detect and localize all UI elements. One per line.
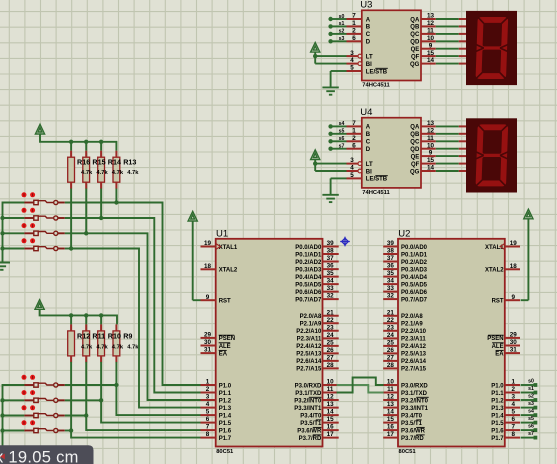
- switch SW4: [3, 238, 71, 250]
- wire U2 P1.7 to node s7: [521, 431, 535, 438]
- wire net s7 to U4 pin 6: [332, 144, 347, 150]
- svg-text:10: 10: [427, 35, 435, 42]
- svg-text:P0.2/AD2: P0.2/AD2: [295, 260, 322, 266]
- svg-text:23: 23: [327, 324, 335, 331]
- svg-text:6: 6: [352, 142, 356, 149]
- power terminal for U3 LT/BI: [311, 43, 320, 53]
- svg-text:P2.5/A13: P2.5/A13: [401, 352, 427, 358]
- wire SW2/R14 node to U1 P1.1: [101, 218, 200, 393]
- junction pull-up R12: [69, 428, 73, 432]
- svg-text:38: 38: [387, 248, 395, 255]
- junction ground bus bottom: [0, 413, 4, 417]
- svg-text:QF: QF: [411, 54, 420, 60]
- svg-text:P1.2: P1.2: [491, 398, 504, 404]
- svg-text:24: 24: [327, 332, 335, 339]
- svg-text:P0.6/AD6: P0.6/AD6: [401, 290, 428, 296]
- wire into resistor R12: [70, 315, 72, 324]
- svg-text:9: 9: [511, 294, 515, 301]
- svg-text:P2.7/A15: P2.7/A15: [401, 367, 427, 373]
- svg-text:4.7k: 4.7k: [81, 170, 93, 176]
- switch SW6: [3, 390, 101, 402]
- svg-text:QC: QC: [410, 32, 420, 38]
- svg-text:31: 31: [510, 347, 518, 354]
- svg-text:74HC4511: 74HC4511: [362, 83, 390, 89]
- svg-text:QG: QG: [410, 62, 420, 68]
- junction ground bus: [0, 246, 4, 250]
- junction ground bus: [0, 216, 4, 220]
- svg-text:P2.6/A14: P2.6/A14: [401, 359, 427, 365]
- svg-text:5: 5: [206, 409, 210, 416]
- svg-text:P2.5/A13: P2.5/A13: [296, 352, 322, 358]
- svg-text:PSEN: PSEN: [219, 336, 235, 342]
- power terminal for top resistor bank: [35, 124, 44, 134]
- svg-text:D: D: [366, 147, 371, 153]
- wire net s4 to U4 pin 7: [332, 121, 347, 127]
- svg-text:D: D: [366, 40, 371, 46]
- svg-text:U4: U4: [360, 107, 372, 118]
- svg-text:16: 16: [327, 424, 335, 431]
- svg-text:12: 12: [387, 394, 395, 401]
- node s3 terminal: [534, 406, 538, 410]
- svg-text:11: 11: [427, 135, 434, 142]
- svg-text:P3.5/T1: P3.5/T1: [300, 421, 322, 427]
- 7-segment display DS2: [466, 118, 517, 192]
- wire R12 / SW8 to U1 P1.7: [71, 362, 200, 438]
- svg-text:XTAL2: XTAL2: [485, 268, 504, 274]
- svg-text:P3.2/INT0: P3.2/INT0: [294, 398, 322, 404]
- wire U3 QG to display: [436, 63, 467, 65]
- node s4: [328, 124, 332, 128]
- svg-text:ALE: ALE: [492, 344, 504, 350]
- svg-text:14: 14: [427, 165, 435, 172]
- svg-text:24: 24: [387, 332, 395, 339]
- svg-text:39: 39: [327, 240, 335, 247]
- svg-text:s0: s0: [339, 14, 345, 20]
- junction ground bus bottom: [0, 398, 4, 402]
- ground (top switch group): [0, 263, 10, 270]
- wire U2 P1.0 to node s0: [521, 378, 535, 385]
- svg-text:4.7k: 4.7k: [96, 344, 108, 350]
- junction pull-up R15: [84, 231, 88, 235]
- svg-text:QA: QA: [410, 17, 420, 23]
- node s5: [328, 132, 332, 136]
- svg-text:s5: s5: [339, 129, 345, 135]
- svg-text:R13: R13: [123, 158, 136, 167]
- svg-text:30: 30: [510, 339, 518, 346]
- svg-text:18: 18: [510, 263, 518, 270]
- svg-text:4: 4: [350, 57, 354, 64]
- svg-text:RST: RST: [492, 299, 504, 305]
- svg-text:27: 27: [327, 355, 335, 362]
- svg-text:P1.7: P1.7: [491, 436, 504, 442]
- svg-text:s3: s3: [528, 401, 534, 407]
- wire ground bus (top switch group): [3, 203, 25, 263]
- svg-text:21: 21: [327, 309, 335, 316]
- svg-text:10: 10: [427, 142, 435, 149]
- svg-text:BI: BI: [366, 169, 372, 175]
- svg-text:15: 15: [427, 50, 435, 57]
- node s3: [328, 39, 332, 43]
- junction resistor top R14: [99, 140, 103, 144]
- wire into resistor R14: [100, 142, 102, 151]
- node s6 terminal: [534, 428, 538, 432]
- svg-text:P2.2/A10: P2.2/A10: [401, 329, 427, 335]
- wire U4 LE/STB to ground: [331, 178, 347, 194]
- svg-text:P3.0/RXD: P3.0/RXD: [295, 383, 322, 389]
- svg-text:s7: s7: [528, 431, 534, 437]
- svg-text:4.7k: 4.7k: [96, 170, 108, 176]
- svg-text:16: 16: [387, 424, 395, 431]
- svg-text:P3.3/INT1: P3.3/INT1: [401, 406, 429, 412]
- 74HC4511 decoder U3: [347, 0, 436, 89]
- wire U2 P1.1 to node s1: [521, 386, 535, 393]
- status tooltip: [0, 445, 94, 464]
- svg-text:P2.7/A15: P2.7/A15: [296, 367, 322, 373]
- svg-text:80C51: 80C51: [216, 449, 234, 455]
- svg-text:B: B: [366, 25, 371, 31]
- switch SW8: [3, 420, 71, 432]
- junction ground bus bottom: [0, 428, 4, 432]
- svg-text:5: 5: [350, 172, 354, 179]
- svg-text:3: 3: [350, 157, 354, 164]
- wire U1 RST to power: [193, 221, 201, 300]
- wire U1 P3.0/RXD to U2 pin 11: [337, 385, 384, 393]
- svg-text:21: 21: [387, 309, 395, 316]
- svg-text:14: 14: [387, 409, 395, 416]
- resistor R11 4.7k: [83, 324, 90, 362]
- junction pull-up R11: [84, 413, 88, 417]
- svg-text:30: 30: [204, 339, 212, 346]
- switch SW1: [3, 192, 116, 204]
- svg-text:QF: QF: [411, 162, 420, 168]
- svg-text:C: C: [366, 140, 371, 146]
- svg-text:QG: QG: [410, 169, 420, 175]
- svg-text:s6: s6: [528, 424, 534, 430]
- svg-text:P3.1/TXD: P3.1/TXD: [401, 391, 428, 397]
- svg-text:s4: s4: [339, 121, 345, 127]
- svg-text:s1: s1: [339, 21, 345, 27]
- svg-text:P0.3/AD3: P0.3/AD3: [401, 267, 428, 273]
- wire power to U4 BI: [315, 164, 346, 171]
- svg-text:U2: U2: [398, 229, 410, 240]
- svg-text:1: 1: [511, 379, 515, 386]
- svg-text:26: 26: [327, 347, 335, 354]
- svg-text:A: A: [366, 17, 371, 23]
- svg-text:P1.1: P1.1: [219, 391, 232, 397]
- wire U4 QD to display: [436, 148, 467, 150]
- node s7: [328, 147, 332, 151]
- svg-text:5: 5: [511, 409, 515, 416]
- svg-text:22: 22: [387, 317, 395, 324]
- svg-text:32: 32: [387, 293, 395, 300]
- wire R16 bottom to switch row 4: [70, 189, 72, 249]
- svg-text:14: 14: [427, 57, 435, 64]
- svg-text:R12: R12: [77, 331, 90, 340]
- svg-text:P3.6/WR: P3.6/WR: [297, 428, 322, 434]
- svg-text:7: 7: [511, 424, 515, 431]
- svg-text:P0.5/AD5: P0.5/AD5: [401, 282, 428, 288]
- svg-text:XTAL2: XTAL2: [219, 268, 238, 274]
- svg-text:PSEN: PSEN: [487, 336, 503, 342]
- svg-text:s2: s2: [528, 393, 534, 399]
- svg-text:P1.3: P1.3: [491, 406, 504, 412]
- svg-text:4.7k: 4.7k: [112, 170, 124, 176]
- svg-text:R10: R10: [108, 331, 121, 340]
- power terminal for U1 RST: [188, 211, 197, 221]
- node s6: [328, 139, 332, 143]
- svg-text:34: 34: [327, 278, 335, 285]
- resistor R9 4.7k: [113, 324, 120, 362]
- switch SW5: [3, 375, 116, 387]
- svg-text:XTAL1: XTAL1: [219, 245, 238, 251]
- wire U2 P1.3 to node s3: [521, 401, 535, 408]
- svg-text:P0.1/AD1: P0.1/AD1: [401, 252, 428, 258]
- 80C51 microcontroller U2: [383, 229, 520, 456]
- svg-text:11: 11: [427, 28, 434, 35]
- svg-text:P1.4: P1.4: [219, 413, 232, 419]
- svg-text:LE/STB: LE/STB: [366, 69, 388, 75]
- svg-text:8: 8: [511, 431, 515, 438]
- svg-text:s0: s0: [528, 378, 534, 384]
- wire SW1/R13 node to U1 P1.0: [116, 203, 200, 386]
- svg-text:4: 4: [206, 401, 210, 408]
- svg-text:6: 6: [352, 35, 356, 42]
- svg-text:P1.1: P1.1: [491, 391, 504, 397]
- svg-text:28: 28: [387, 362, 395, 369]
- svg-text:P3.4/T0: P3.4/T0: [401, 413, 423, 419]
- svg-text:4.7k: 4.7k: [127, 344, 139, 350]
- svg-text:28: 28: [327, 362, 335, 369]
- svg-text:2: 2: [511, 386, 515, 393]
- svg-text:13: 13: [427, 120, 435, 127]
- 80C51 microcontroller U1: [201, 229, 339, 456]
- resistor R14 4.7k: [98, 151, 105, 189]
- svg-text:P1.0: P1.0: [491, 383, 504, 389]
- svg-text:P1.3: P1.3: [219, 406, 232, 412]
- svg-text:10: 10: [327, 379, 335, 386]
- svg-text:P3.0/RXD: P3.0/RXD: [401, 383, 428, 389]
- wire R11 / SW7 to U1 P1.6: [86, 362, 200, 430]
- svg-text:P3.7/RD: P3.7/RD: [401, 436, 424, 442]
- switch SW7: [3, 405, 86, 417]
- svg-text:1: 1: [206, 379, 210, 386]
- svg-text:LE/STB: LE/STB: [366, 177, 388, 183]
- svg-text:15: 15: [427, 157, 435, 164]
- svg-text:13: 13: [327, 401, 335, 408]
- svg-text:P0.4/AD4: P0.4/AD4: [401, 275, 428, 281]
- svg-text:35: 35: [327, 270, 335, 277]
- svg-text:36: 36: [387, 263, 395, 270]
- wire power rail to resistor tops (top bank): [40, 134, 116, 151]
- svg-text:QD: QD: [410, 40, 420, 46]
- wire U4 QC to display: [436, 140, 467, 142]
- svg-text:P0.7/AD7: P0.7/AD7: [295, 297, 322, 303]
- svg-text:19: 19: [510, 240, 518, 247]
- svg-text:11: 11: [387, 386, 394, 393]
- wire R14 bottom to switch row 2: [100, 189, 102, 219]
- svg-text:12: 12: [427, 20, 435, 27]
- svg-text:35: 35: [387, 270, 395, 277]
- svg-text:P3.1/TXD: P3.1/TXD: [295, 391, 322, 397]
- svg-text:25: 25: [327, 340, 335, 347]
- svg-text:R11: R11: [92, 331, 105, 340]
- svg-text:A: A: [366, 125, 371, 131]
- junction pull-up R9: [114, 383, 118, 387]
- svg-text:1: 1: [352, 20, 356, 27]
- svg-text:s2: s2: [339, 29, 345, 35]
- svg-text:33: 33: [387, 285, 395, 292]
- wire U3 QB to display: [436, 25, 467, 27]
- wire power to U4 LT: [315, 160, 346, 164]
- svg-text:P3.5/T1: P3.5/T1: [401, 421, 423, 427]
- wire U3 QE to display: [436, 48, 467, 50]
- svg-text:P1.5: P1.5: [491, 421, 504, 427]
- svg-text:s3: s3: [339, 36, 345, 42]
- resistor R13 4.7k: [113, 151, 120, 189]
- wire into resistor R10: [100, 315, 102, 324]
- ground for U4: [322, 195, 338, 202]
- wire U3 QD to display: [436, 40, 467, 42]
- svg-text:P1.6: P1.6: [491, 428, 504, 434]
- svg-text:27: 27: [387, 355, 395, 362]
- node s4 terminal: [534, 413, 538, 417]
- cursor marker: [0, 454, 5, 460]
- svg-text:32: 32: [327, 293, 335, 300]
- svg-text:B: B: [366, 132, 371, 138]
- svg-text:19: 19: [204, 240, 212, 247]
- svg-text:P0.7/AD7: P0.7/AD7: [401, 297, 428, 303]
- svg-text:P0.5/AD5: P0.5/AD5: [295, 282, 322, 288]
- svg-text:5: 5: [350, 65, 354, 72]
- svg-text:74HC4511: 74HC4511: [362, 190, 390, 196]
- switch SW3: [3, 223, 86, 235]
- svg-text:4.7k: 4.7k: [127, 170, 139, 176]
- wire U1 P3.1/TXD to U2 pin 10: [337, 378, 384, 393]
- svg-text:25: 25: [387, 340, 395, 347]
- power terminal for U4 LT/BI: [311, 150, 320, 160]
- wire U3 QF to display: [436, 55, 467, 57]
- wire U4 QG to display: [436, 170, 467, 172]
- svg-text:QE: QE: [411, 47, 420, 53]
- node s2: [328, 32, 332, 36]
- wire R9 / SW5 to U1 P1.4: [116, 362, 200, 415]
- svg-text:36: 36: [327, 263, 335, 270]
- power terminal for U2 RST: [524, 209, 533, 219]
- resistor R15 4.7k: [83, 151, 90, 189]
- svg-text:2: 2: [206, 386, 210, 393]
- node s1: [328, 24, 332, 28]
- svg-text:P2.4/A12: P2.4/A12: [401, 344, 427, 350]
- svg-text:22: 22: [327, 317, 335, 324]
- svg-text:P1.5: P1.5: [219, 421, 232, 427]
- wire U4 QA to display: [436, 125, 467, 127]
- svg-text:12: 12: [327, 394, 335, 401]
- svg-text:2: 2: [352, 135, 356, 142]
- resistor R16 4.7k: [68, 151, 75, 189]
- wire R13 bottom to switch row 1: [115, 189, 117, 203]
- svg-text:P0.0/AD0: P0.0/AD0: [295, 245, 322, 251]
- svg-text:11: 11: [327, 386, 334, 393]
- wire ground bus (bottom switch group): [3, 385, 25, 448]
- junction resistor top R15: [84, 140, 88, 144]
- junction resistor top R16: [69, 140, 73, 144]
- wire net s6 to U4 pin 2: [332, 136, 347, 142]
- svg-text:P2.0/A8: P2.0/A8: [300, 314, 322, 320]
- wire into resistor R16: [70, 142, 72, 151]
- node s1 terminal: [534, 391, 538, 395]
- junction ground bus: [0, 231, 4, 235]
- svg-text:80C51: 80C51: [399, 449, 417, 455]
- svg-text:7: 7: [352, 120, 356, 127]
- svg-text:P1.4: P1.4: [491, 413, 504, 419]
- wire SW4/R16 node to U1 P1.3: [71, 249, 200, 408]
- svg-text:P3.3/INT1: P3.3/INT1: [294, 406, 322, 412]
- svg-text:33: 33: [327, 285, 335, 292]
- svg-text:17: 17: [327, 431, 335, 438]
- power terminal for bottom resistor bank: [35, 300, 44, 310]
- svg-text:P2.1/A9: P2.1/A9: [401, 322, 423, 328]
- 74HC4511 decoder U4: [347, 107, 436, 196]
- wire U3 QC to display: [436, 33, 467, 35]
- svg-text:C: C: [366, 32, 371, 38]
- svg-text:P2.6/A14: P2.6/A14: [296, 359, 322, 365]
- svg-text:s5: s5: [528, 416, 534, 422]
- svg-text:3: 3: [511, 394, 515, 401]
- junction pull-up R13: [114, 200, 118, 204]
- resistor R10 4.7k: [98, 324, 105, 362]
- svg-text:P3.6/WR: P3.6/WR: [401, 428, 426, 434]
- svg-text:R15: R15: [92, 158, 105, 167]
- svg-text:QB: QB: [410, 25, 420, 31]
- svg-text:P1.6: P1.6: [219, 428, 232, 434]
- svg-text:P0.6/AD6: P0.6/AD6: [295, 290, 322, 296]
- junction on LT wire U4: [313, 161, 317, 165]
- svg-text:34: 34: [387, 278, 395, 285]
- ground for U3: [322, 87, 338, 94]
- wire net s5 to U4 pin 1: [332, 129, 347, 135]
- svg-text:R14: R14: [108, 158, 121, 167]
- svg-text:P0.1/AD1: P0.1/AD1: [295, 252, 322, 258]
- wire net s0 to U3 pin 7: [332, 14, 347, 20]
- svg-text:9: 9: [429, 42, 433, 49]
- svg-text:4: 4: [350, 165, 354, 172]
- svg-text:P3.4/T0: P3.4/T0: [300, 413, 322, 419]
- svg-text:s4: s4: [528, 409, 534, 415]
- wire power to U3 BI: [315, 56, 346, 64]
- node s2 terminal: [534, 398, 538, 402]
- wire U2 RST to power: [521, 219, 529, 300]
- origin marker: [340, 237, 350, 247]
- svg-text:37: 37: [387, 255, 395, 262]
- wire power rail to resistor tops (bottom bank): [40, 309, 117, 324]
- svg-text:P2.0/A8: P2.0/A8: [401, 314, 423, 320]
- wire R15 bottom to switch row 3: [85, 189, 87, 234]
- svg-text:12: 12: [427, 127, 435, 134]
- svg-text:17: 17: [387, 431, 395, 438]
- svg-text:9: 9: [206, 294, 210, 301]
- svg-text:R9: R9: [123, 331, 132, 340]
- svg-text:P3.2/INT0: P3.2/INT0: [401, 398, 429, 404]
- junction pull-up R14: [99, 216, 103, 220]
- svg-text:U1: U1: [216, 229, 228, 240]
- svg-text:18: 18: [204, 263, 212, 270]
- junction resistor top R12: [69, 313, 73, 317]
- svg-text:P1.2: P1.2: [219, 398, 232, 404]
- junction pull-up R16: [69, 246, 73, 250]
- svg-text:4.7k: 4.7k: [81, 344, 93, 350]
- svg-text:ALE: ALE: [219, 344, 231, 350]
- svg-text:4.7k: 4.7k: [112, 344, 124, 350]
